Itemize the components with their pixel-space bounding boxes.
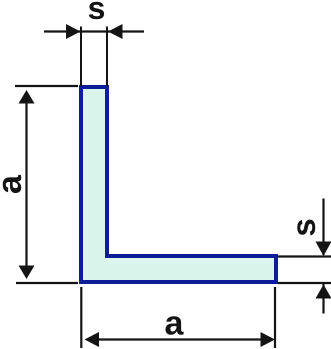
dimension s (right): extension line bottom bbox=[278, 282, 331, 284]
svg-text:s: s bbox=[285, 218, 322, 236]
dimension s (top): extension line right bbox=[106, 27, 108, 87]
dimension s (right): arrowhead pointing down bbox=[316, 242, 331, 257]
svg-text:a: a bbox=[165, 305, 185, 343]
dimension a (left): dimension line bbox=[25, 100, 27, 268]
dimension s (top): extension line left bbox=[80, 27, 82, 87]
dimension s (right): dimension line upper segment bbox=[322, 199, 324, 256]
dimension a (bottom): extension line right bbox=[274, 287, 276, 348]
svg-text:s: s bbox=[88, 0, 106, 26]
dimension a (left): extension line top bbox=[15, 85, 78, 87]
dimension a (left): arrowhead pointing up bbox=[19, 90, 35, 104]
dimension s (top): dimension line bbox=[44, 30, 144, 32]
dimension a (bottom): arrowhead pointing left bbox=[85, 332, 100, 347]
dimension s (right): extension line top bbox=[278, 255, 331, 257]
dimension a (left): extension line bottom bbox=[16, 282, 78, 284]
dimension a (left): arrowhead pointing down bbox=[19, 266, 35, 280]
L-profile (equal angle section) bbox=[81, 87, 276, 282]
dimension a (bottom): arrowhead pointing right bbox=[261, 332, 276, 347]
dimension a (bottom): extension line left bbox=[80, 287, 82, 348]
dimension s (top): arrowhead pointing right bbox=[66, 24, 81, 39]
dimension s (top): arrowhead pointing left bbox=[108, 24, 123, 39]
svg-text:a: a bbox=[0, 174, 29, 194]
dimension s (right): arrowhead pointing up bbox=[316, 285, 331, 299]
dimension a (bottom): dimension line bbox=[95, 338, 265, 340]
dimension s (right): dimension line lower segment bbox=[322, 284, 324, 314]
